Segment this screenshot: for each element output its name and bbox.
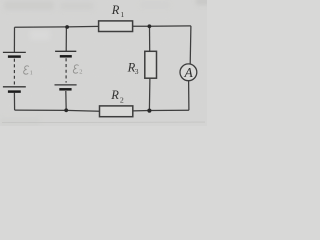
svg-text:1: 1 <box>30 69 33 76</box>
junction dot bottom of R3 branch <box>147 109 151 113</box>
wire battery E2 top from junction <box>65 27 67 51</box>
battery E1 dashed link <box>13 59 15 85</box>
svg-text:A: A <box>183 65 193 80</box>
resistor R1 <box>99 21 133 32</box>
svg-text:R: R <box>111 3 120 17</box>
battery E1 cell 2 long plate <box>3 86 26 88</box>
faint smudges top strip <box>0 0 210 126</box>
paper background <box>0 0 207 126</box>
battery E2 cell 2 long plate <box>55 84 77 86</box>
wire left drop from top rail to battery E1 <box>13 27 15 52</box>
label EMF E2 script <box>73 65 78 73</box>
wire top rail left segment <box>15 25 99 28</box>
wire battery E1 bottom to bottom rail <box>13 93 15 110</box>
wire battery E2 bottom to bottom rail <box>65 91 67 110</box>
battery E2 dashed link <box>65 58 67 82</box>
resistor R2 <box>100 106 133 117</box>
faint rule line near bottom <box>2 121 205 124</box>
junction dot below battery E2 <box>64 108 68 112</box>
battery E2 cell 1 short thick plate <box>60 55 72 58</box>
wire bottom rail left segment <box>15 110 100 111</box>
wire top rail right segment <box>133 25 191 27</box>
battery E1 cell 1 long plate <box>3 51 26 53</box>
svg-text:1: 1 <box>120 10 124 19</box>
svg-text:2: 2 <box>79 68 82 75</box>
battery E1 cell 1 short thick plate <box>8 55 21 58</box>
junction dot above battery E2 <box>65 25 69 29</box>
svg-text:2: 2 <box>120 96 124 105</box>
junction dot top of R3 branch <box>148 24 152 28</box>
wire right drop to ammeter <box>189 26 192 64</box>
svg-text:R: R <box>110 88 119 102</box>
wire ammeter to bottom right corner <box>188 81 190 111</box>
resistor R3 <box>145 51 157 78</box>
wire bottom rail right segment <box>133 109 189 112</box>
wire R3 bottom tap <box>148 78 151 110</box>
wire R3 top tap <box>149 26 151 51</box>
battery E2 cell 2 short thick plate <box>59 88 71 91</box>
svg-text:3: 3 <box>135 67 139 76</box>
battery E2 cell 1 long plate <box>55 50 76 52</box>
battery E1 cell 2 short thick plate <box>8 90 21 93</box>
ammeter A1 circle <box>180 64 197 81</box>
label EMF E1 script <box>24 66 29 74</box>
